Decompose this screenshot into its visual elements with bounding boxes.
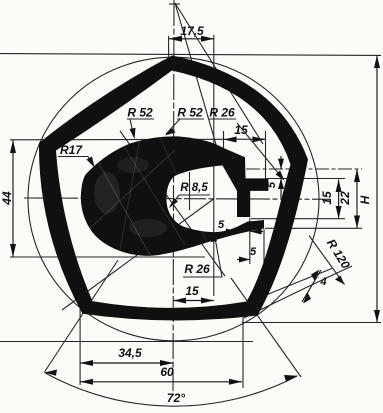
72-degree arc — [45, 373, 298, 407]
R120 leader — [309, 236, 345, 285]
monogram C with T element — [81, 136, 269, 255]
60 dimension — [80, 365, 242, 385]
extension vertical lower-right vertex — [242, 316, 244, 388]
scan texture speckle over monogram — [88, 137, 210, 255]
extension vertical x=265.5 — [265, 131, 267, 179]
34.5 dimension — [80, 346, 173, 366]
construction circle (scan-skewed ellipse) — [28, 57, 319, 341]
svg-text:60: 60 — [160, 365, 174, 379]
long vertical at R26 centers — [213, 35, 215, 296]
svg-text:5: 5 — [266, 181, 278, 188]
radial through R26 center — [62, 199, 214, 310]
R52 label left — [127, 106, 154, 140]
5 dimension stem width — [218, 219, 263, 235]
H dimension — [358, 55, 380, 322]
svg-text:22: 22 — [338, 191, 352, 206]
vertical 5 dimension — [266, 156, 284, 198]
R26 label top — [209, 106, 285, 181]
svg-text:R 8,5: R 8,5 — [180, 182, 208, 194]
right extension line y=226.6 — [265, 227, 362, 229]
R120 extension arc inner — [242, 269, 332, 306]
diagonal from top to right — [175, 3, 263, 144]
svg-text:15: 15 — [320, 191, 334, 205]
R26 label bottom — [183, 231, 222, 277]
svg-text:5: 5 — [218, 219, 225, 231]
extension vertical stem right edge — [249, 218, 251, 264]
svg-text:72°: 72° — [167, 391, 185, 405]
svg-text:H: H — [358, 195, 372, 204]
extension vertical jaw tip — [263, 229, 265, 264]
right extension line y=178.5 — [267, 178, 345, 180]
right extension line y=169 — [246, 168, 362, 170]
pentagon band — [39, 56, 308, 321]
svg-text:15: 15 — [234, 123, 248, 137]
4 dimension — [302, 270, 327, 304]
svg-text:R 26: R 26 — [184, 262, 210, 276]
right 72-degree ray — [231, 278, 301, 377]
R8.5 label — [169, 182, 210, 208]
svg-text:44: 44 — [0, 191, 14, 206]
extension line apex — [168, 36, 170, 58]
svg-text:15: 15 — [185, 284, 199, 298]
centerline top tick — [169, 3, 180, 5]
svg-text:R 52: R 52 — [177, 106, 203, 120]
right 15 dimension — [320, 180, 342, 219]
extension vertical x=223.5 — [223, 131, 225, 158]
R120 extension arc outer — [244, 266, 352, 318]
R52 label right — [165, 106, 204, 136]
svg-text:4: 4 — [319, 276, 326, 288]
left 72-degree ray — [45, 260, 119, 372]
svg-text:R 52: R 52 — [127, 106, 153, 120]
bottom tangent line of circle — [0, 341, 253, 343]
line through upper-left vertex — [10, 138, 266, 141]
bottom 5 dimension — [237, 246, 277, 263]
bottom 15 dimension — [173, 284, 214, 304]
line at bottom of monogram — [10, 256, 205, 258]
right 22 dimension — [338, 169, 360, 228]
top 15 dimension — [224, 123, 266, 143]
horizontal axis chain line — [24, 198, 330, 199]
svg-text:5: 5 — [250, 246, 257, 258]
svg-text:R 26: R 26 — [209, 106, 235, 120]
hole center vertical tick — [189, 172, 191, 210]
diagonal scratch over C — [120, 131, 225, 276]
top tangent line — [0, 54, 381, 56]
right extension line y=218.7 — [251, 218, 345, 220]
bottom tangent line of pentagon — [242, 322, 381, 324]
svg-text:34,5: 34,5 — [118, 346, 142, 360]
svg-text:R17: R17 — [60, 143, 83, 157]
44 dimension — [0, 140, 16, 257]
17.5 dimension — [169, 24, 214, 42]
R17 label — [58, 143, 95, 168]
svg-text:17,5: 17,5 — [180, 24, 204, 38]
vertical centerline — [173, 0, 174, 391]
extension vertical lower-left vertex — [79, 307, 81, 385]
steep diagonal from top — [175, 3, 217, 148]
